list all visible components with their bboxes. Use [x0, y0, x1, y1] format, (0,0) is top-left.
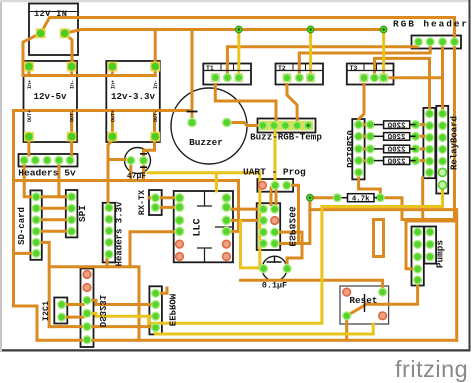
resistor R1 220	[374, 121, 416, 130]
wire bottom bus	[37, 339, 457, 342]
wire yellow T3 pad3 drop	[382, 30, 385, 78]
wire RGB pad3 down to RelayBoard right pad1	[441, 42, 444, 114]
wire 12V pad2 to 12v-5v In-	[65, 33, 72, 66]
wire In+ bus	[23, 74, 155, 77]
svg-text:RGB header: RGB header	[393, 19, 469, 30]
wire SD-SPI rows	[36, 197, 71, 232]
svg-text:12v-5v: 12v-5v	[33, 91, 67, 102]
connector J1 12V IN box	[29, 4, 78, 56]
wire SD pad5 down to bottom bus	[36, 242, 49, 326]
wire 4.7k right pad to 12V net	[380, 198, 454, 220]
svg-text:0.1µF: 0.1µF	[262, 281, 287, 291]
wire T2 pad2 up to RGB pad2	[299, 42, 430, 78]
12v-3.3v labels/pads	[108, 62, 161, 142]
wire branch right at y266.8	[49, 267, 139, 341]
svg-text:ESP8266: ESP8266	[287, 206, 298, 247]
wire T3 pad3 right	[385, 76, 443, 79]
wire 3.3v OUT+ to Headers3.3v pad1	[108, 111, 112, 208]
svg-text:In+: In+	[111, 80, 117, 89]
Pumps pads	[413, 227, 446, 284]
svg-text:Headers 5v: Headers 5v	[18, 168, 76, 179]
junction dot node C on 12V bus	[380, 26, 387, 33]
svg-text:T2: T2	[278, 65, 286, 72]
wire OUT bus	[14, 109, 193, 112]
svg-text:47µF: 47µF	[127, 172, 146, 181]
svg-text:Pumps: Pumps	[435, 240, 446, 269]
wire long row to EEPROM pad4	[49, 325, 155, 328]
wire branch up to Headers3.3v pad5	[106, 254, 109, 267]
Buzz-RGB-Temp pads	[250, 121, 322, 143]
wire Reset lever	[347, 304, 367, 316]
wire UART right exit down	[291, 185, 299, 243]
RGB header pads	[393, 19, 469, 47]
module ESP8266 box	[257, 203, 281, 250]
wire ESP row4 to riser	[275, 198, 338, 244]
connector SPI box	[66, 190, 78, 237]
connector RX-TX box	[149, 190, 162, 215]
frame right dark	[469, 0, 471, 352]
sensor T2 box	[276, 64, 324, 85]
RX-TX pads	[137, 189, 160, 215]
svg-text:12v-3.3v: 12v-3.3v	[111, 91, 156, 102]
wire yellow stub into LLC	[215, 173, 218, 191]
wire rail y180.5	[14, 181, 239, 232]
connector RelayBoard left box	[423, 108, 435, 178]
DS18B20 pads	[344, 120, 363, 177]
wire 12V pad1 to In+ bus	[23, 33, 41, 75]
wire stub loop left	[374, 220, 384, 257]
DS3231 pads	[82, 270, 107, 344]
connector DS18B20 box	[352, 119, 364, 179]
svg-text:EEPROM: EEPROM	[167, 294, 177, 326]
sensor T3 box	[347, 64, 394, 85]
wire 12V pad2 top bus	[65, 30, 383, 34]
resistor R5 4.7k	[307, 193, 385, 203]
svg-text:Buzzer: Buzzer	[189, 137, 223, 148]
wire 47uF left pad to rail	[108, 158, 131, 161]
wire DS18B20 pad5 to 4.7k	[359, 172, 381, 197]
wire I2C1 to DS3231 rows	[62, 305, 83, 318]
connector Pumps left box	[412, 227, 424, 286]
wire OUT stubs	[72, 111, 155, 161]
12v-5v labels/pads	[24, 62, 77, 142]
0.1uF pads	[259, 256, 292, 290]
svg-text:I2C1: I2C1	[41, 301, 51, 321]
svg-text:OUT-: OUT-	[153, 110, 159, 122]
wire LLC right to ESP8266 rows	[226, 209, 263, 220]
svg-text:RelayBoard: RelayBoard	[450, 116, 460, 170]
svg-text:In-: In-	[70, 80, 76, 89]
wire Reset top bus	[241, 280, 383, 292]
wire T1 pad2 up to RGB pad1	[227, 42, 418, 78]
svg-text:SPI: SPI	[77, 205, 88, 222]
regulator U2 12v-3.3v box	[106, 61, 160, 142]
12V IN label	[29, 9, 78, 38]
svg-text:RX-TX: RX-TX	[137, 189, 147, 215]
wire yellow bus y334	[156, 333, 374, 336]
junction dot node B on 12V bus	[307, 26, 314, 33]
wire buzzer pad1 drop	[191, 30, 194, 123]
wire yellow RelayBoard pad7 long net	[149, 185, 443, 323]
wire 3.3v BR to 47uF right pad	[144, 137, 155, 161]
svg-text:LLC: LLC	[193, 218, 204, 236]
wire resistor col to relay rows	[420, 125, 426, 161]
svg-text:220Ω: 220Ω	[387, 122, 405, 130]
I2C1 pads	[41, 300, 66, 322]
wire 12v-5v OUT+ down to Headers5v	[27, 137, 30, 155]
wire In+ stubs	[29, 67, 155, 76]
svg-text:In-: In-	[153, 80, 159, 89]
resistor ladder pads	[366, 120, 420, 165]
wire ESP right to 0.1uF	[275, 232, 302, 269]
wire DS3231 pad3 to EEPROM pad2	[91, 300, 156, 304]
svg-text:SD-card: SD-card	[17, 207, 27, 245]
svg-text:12V IN: 12V IN	[34, 9, 67, 19]
wire left bus to SD pad6	[14, 252, 35, 255]
wire Headers5v pad4 to SPI pad1	[59, 166, 72, 197]
svg-text:Reset: Reset	[349, 295, 377, 306]
svg-text:Buzz-RGB-Temp: Buzz-RGB-Temp	[250, 132, 322, 143]
47uF pads	[126, 154, 148, 181]
connector RelayBoard right box	[436, 106, 448, 194]
wire Reset BL to bottom bus	[345, 316, 348, 341]
connector I2C1 box	[54, 298, 67, 324]
wire T1 pad1 to BuzzRGB pad2	[215, 85, 276, 126]
connector SD-card box	[30, 190, 41, 259]
svg-text:220Ω: 220Ω	[387, 134, 405, 142]
wire top bus to 3.3v In-	[154, 30, 157, 67]
frame top light	[0, 0, 470, 2]
frame left light	[0, 0, 2, 352]
wire yellow EEPROM pad4 stub	[154, 328, 157, 334]
capacitor C2 0.1uF circle	[262, 256, 287, 281]
svg-text:UART - Prog: UART - Prog	[243, 167, 306, 178]
ESP8266 pads	[259, 205, 298, 249]
svg-text:fritzing: fritzing	[395, 356, 468, 382]
svg-text:T3: T3	[350, 65, 358, 72]
LLC pads/detail	[175, 191, 233, 262]
wire lever net to Pumps	[367, 286, 418, 305]
svg-text:220Ω: 220Ω	[387, 158, 405, 166]
wire junction bus right	[310, 210, 457, 341]
resistor R4 220	[374, 157, 416, 167]
connector Pumps right box	[424, 227, 436, 264]
wire yellow T2 pad3 drop	[309, 30, 312, 78]
buzzer pads	[187, 112, 232, 149]
wire yellow 0.1uF left feed	[241, 221, 264, 268]
connector Headers 3.3v box	[103, 203, 116, 263]
sensor T1 box	[203, 64, 251, 85]
svg-text:DS3231: DS3231	[97, 294, 107, 327]
SD-card pads	[17, 192, 41, 258]
wire UART pads down to ESP	[271, 188, 276, 209]
svg-text:4.7k: 4.7k	[352, 196, 370, 204]
capacitor C1 47uF circle	[125, 148, 151, 174]
resistor R3 220	[374, 145, 416, 155]
UART pads	[243, 167, 306, 190]
junction dot node A on 12V bus	[235, 26, 242, 33]
module LLC box	[174, 191, 233, 262]
EEPROM pads	[151, 289, 177, 333]
wire 47uF pads down to rail	[131, 161, 144, 181]
svg-text:OUT-: OUT-	[70, 110, 76, 122]
buzzer BZ1 circle	[171, 88, 247, 164]
connector Headers 5v box	[19, 154, 78, 167]
svg-text:OUT+: OUT+	[111, 110, 117, 122]
svg-text:OUT+: OUT+	[27, 110, 33, 122]
Headers 5v pads	[18, 156, 76, 179]
T1 detail	[203, 64, 251, 83]
module DS3231 box	[81, 269, 94, 348]
wire branch up to LLC left pad4	[130, 232, 180, 267]
wire 12V+ to RGB pad4 down right side to Pumps	[41, 18, 455, 269]
T2 detail	[276, 64, 324, 83]
wire left bus down	[14, 111, 38, 341]
frame bottom dark	[2, 349, 471, 351]
svg-text:In+: In+	[27, 80, 33, 89]
wire T2 pad1 to BuzzRGB pad4	[287, 85, 297, 126]
resistor R2 220	[374, 133, 416, 143]
wire T3 pad2 to RelayBoard left pad1	[375, 58, 430, 113]
wire Headers5v pad1 to SD pad1	[24, 166, 36, 197]
wire buzzer pad2 to BuzzRGB pad1	[227, 123, 263, 126]
connector EEPROM box	[149, 286, 162, 334]
connector Buzz-RGB-Temp box	[258, 119, 316, 133]
svg-text:T1: T1	[206, 65, 214, 72]
wire T3 pad1 to DS18B20 pad1	[359, 85, 364, 125]
connector UART - Prog box	[257, 179, 293, 192]
wire DS18B20 row stubs	[359, 125, 371, 161]
wire yellow T1 pad3 drop	[237, 30, 240, 78]
regulator U1 12v-5v box	[24, 61, 78, 142]
switch Reset box	[340, 286, 389, 324]
wire yellow BuzzRGB pad2 to UART pad2	[274, 131, 277, 179]
T3 detail	[347, 64, 394, 83]
RelayBoard pads	[425, 109, 460, 189]
wire yellow down left of ESP to 0.1uF	[148, 173, 260, 269]
wire yellow riser to Reset box	[372, 324, 375, 334]
wire RX-TX to LLC rows	[149, 198, 180, 208]
Reset pads	[342, 288, 387, 321]
svg-text:DS18B20: DS18B20	[344, 130, 354, 168]
Headers 3.3v pads	[104, 201, 124, 266]
SPI pads	[67, 192, 88, 236]
svg-text:220Ω: 220Ω	[387, 147, 405, 155]
connector RGB header box	[412, 36, 462, 49]
svg-text:Headers 3.3v: Headers 3.3v	[115, 201, 125, 266]
wire yellow DS3231 to EEPROM pad3	[91, 313, 156, 316]
wire EEPROM pad1 stub	[156, 288, 167, 293]
wire relay left bottom down	[421, 178, 424, 221]
